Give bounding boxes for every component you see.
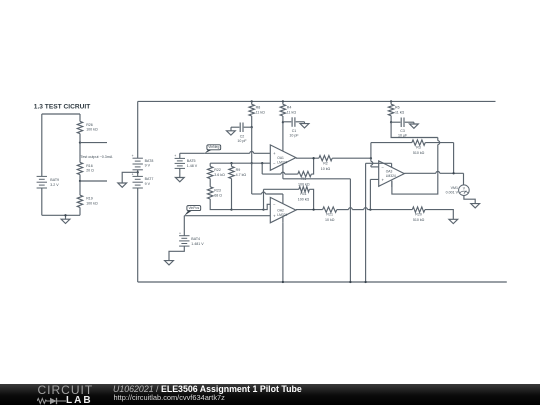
svg-text:R22: R22 — [214, 168, 221, 172]
wire R4 top lead — [282, 101, 284, 104]
pin OA3 vplus stub — [391, 163, 393, 167]
node test tap 2 — [79, 180, 81, 182]
capacitor C1 — [283, 121, 291, 123]
ground C3 — [410, 124, 419, 128]
node OA3 minus junction — [370, 157, 372, 159]
svg-text:OA3: OA3 — [386, 169, 393, 173]
svg-text:OA2: OA2 — [277, 208, 284, 212]
capacitor C3 — [391, 121, 400, 123]
svg-text:510 kΩ: 510 kΩ — [413, 151, 425, 155]
wire node2 to R19 — [79, 181, 81, 195]
svg-text:R8: R8 — [256, 106, 261, 110]
wire OA1 vminus to right — [283, 178, 351, 180]
svg-text:BAT5: BAT5 — [187, 159, 196, 163]
svg-text:Test output ~0.3mA: Test output ~0.3mA — [81, 155, 113, 159]
ground R20 — [449, 219, 458, 223]
node output R3 junction — [452, 172, 454, 174]
svg-text:9 V: 9 V — [145, 164, 151, 168]
svg-text:510 kΩ: 510 kΩ — [413, 218, 425, 222]
svg-text:BAT4: BAT4 — [191, 237, 200, 241]
wire R6 to C3 node — [390, 116, 392, 123]
svg-text:0.001 V: 0.001 V — [446, 191, 459, 195]
wire test-circuit left — [41, 114, 43, 176]
svg-text:VinPos: VinPos — [188, 206, 199, 210]
svg-text:+: + — [273, 213, 276, 218]
node R11 out junction — [312, 208, 314, 210]
svg-text:VinNeg: VinNeg — [208, 145, 219, 149]
battery BAT5 — [175, 157, 185, 159]
wire C1 to ground — [304, 122, 306, 124]
wire R8 to C2 node — [251, 116, 253, 127]
ground test circuit — [65, 215, 67, 219]
svg-text:C2: C2 — [240, 135, 245, 139]
svg-text:R9: R9 — [236, 168, 241, 172]
ground C1 — [300, 124, 309, 128]
resistor R3 feedback — [371, 142, 412, 144]
node R4 top — [282, 100, 284, 102]
svg-text:10 kΩ: 10 kΩ — [325, 218, 335, 222]
wire R9 bottom lead — [231, 179, 233, 210]
node R6 top — [390, 100, 392, 102]
resistor R20 — [412, 207, 425, 212]
capacitor C2 — [244, 126, 252, 128]
wire vplus down to rail — [365, 163, 367, 282]
svg-text:11 kΩ: 11 kΩ — [287, 111, 297, 115]
pin OA2 vminus stub — [282, 216, 284, 222]
battery BAT4 — [179, 235, 189, 237]
node C2 — [251, 126, 253, 128]
wire node1 to R16 — [79, 143, 81, 163]
resistor R22 — [208, 166, 213, 178]
svg-text:BAT8: BAT8 — [145, 159, 154, 163]
wire mid node to ground — [122, 172, 138, 183]
resistor R9 — [229, 166, 234, 178]
node test tap 1 — [79, 141, 81, 143]
svg-text:LM324: LM324 — [277, 161, 287, 165]
svg-text:1.48 V: 1.48 V — [187, 164, 198, 168]
wire top supply rail — [138, 100, 496, 102]
node R9 bottom — [230, 208, 232, 210]
wire R1 leg down — [261, 163, 263, 174]
wire R20 to ground — [425, 210, 453, 220]
svg-text:11 kΩ: 11 kΩ — [256, 111, 266, 115]
svg-text:+: + — [382, 177, 385, 182]
wire C3 node route right — [391, 122, 438, 137]
svg-text:VM1: VM1 — [451, 186, 458, 190]
svg-text:100 kΩ: 100 kΩ — [298, 197, 310, 201]
node R11 leg bottom — [262, 208, 264, 210]
svg-text:9 V: 9 V — [145, 182, 151, 186]
ground battery midpoint — [118, 183, 127, 187]
ground BAT4 — [165, 261, 174, 265]
resistor R19 — [77, 195, 82, 207]
wire output down to voltmeter — [463, 173, 465, 185]
logo doodle resistor-diode — [37, 398, 66, 403]
wire OA3 minus drop (hop over vplus line) — [370, 158, 372, 161]
wire R8C2 node down to minus line — [251, 127, 253, 163]
svg-text:+: + — [174, 154, 176, 158]
svg-text:−: − — [273, 161, 276, 166]
wire R23 bottom corner — [210, 199, 231, 210]
wire R22-R23 — [209, 179, 211, 187]
resistor R16 — [77, 162, 82, 174]
svg-text:+: + — [273, 151, 276, 156]
svg-text:R6: R6 — [395, 105, 400, 109]
node R1 takeoff — [261, 162, 263, 164]
svg-text:−: − — [382, 165, 385, 170]
battery BAT8 — [133, 157, 143, 159]
wire VinNeg to OA1 plus input (hop at R8 branch) — [205, 152, 250, 154]
svg-text:R19: R19 — [86, 197, 93, 201]
wire to OA2 vplus pin (hop over R11 leg) — [252, 193, 262, 195]
svg-text:LM324: LM324 — [386, 174, 396, 178]
svg-text:10 pF: 10 pF — [237, 139, 247, 143]
wire R8 branch down — [251, 163, 253, 194]
node vplus rail — [364, 281, 366, 283]
wire gain net top corner — [209, 163, 211, 166]
svg-text:68 Ω: 68 Ω — [214, 193, 222, 197]
wire BAT5 top — [180, 153, 205, 158]
resistor R4 — [280, 104, 285, 116]
wire R26 top lead — [79, 114, 81, 121]
wire test-circuit top — [42, 113, 80, 115]
svg-text:BAT7: BAT7 — [145, 177, 154, 181]
resistor R11 feedback — [263, 189, 265, 209]
wire R21 to R20 (hops) — [337, 209, 349, 211]
battery BAT7 — [133, 175, 143, 177]
op-amp OA2 — [270, 197, 296, 222]
svg-text:−: − — [273, 202, 276, 207]
svg-text:R16: R16 — [86, 164, 93, 168]
wire R6 top lead — [390, 101, 392, 104]
svg-text:10 pF: 10 pF — [289, 133, 299, 137]
svg-text:10 kΩ: 10 kΩ — [321, 167, 331, 171]
node OA2 vminus rail — [282, 281, 284, 283]
wire C2 to ground — [230, 127, 232, 131]
wire BAT8 to mid node — [137, 170, 139, 176]
svg-text:1.3 TEST CICRUIT: 1.3 TEST CICRUIT — [34, 104, 90, 111]
ground BAT5 — [175, 178, 184, 182]
svg-text:BAT9: BAT9 — [50, 178, 59, 182]
wire OA3 plus input — [370, 179, 378, 209]
battery BAT9 — [37, 175, 47, 177]
resistor R1 feedback — [262, 173, 281, 175]
resistor R21 — [323, 207, 337, 212]
svg-text:R23: R23 — [214, 188, 221, 192]
wire R8 top lead — [251, 101, 253, 104]
wire OA2 minus jog — [264, 204, 271, 209]
pin OA1 vminus stub — [282, 164, 284, 179]
svg-text:10 µF: 10 µF — [398, 133, 408, 137]
wire C1 node to OA1 vplus pin — [282, 122, 284, 151]
wire R3 right leg down — [453, 143, 455, 174]
wire R26 to node — [79, 134, 81, 143]
svg-text:+: + — [132, 172, 134, 176]
svg-text:R20: R20 — [415, 213, 422, 217]
op-amp OA3 — [379, 161, 405, 186]
wire R16 to node2 — [79, 175, 81, 181]
svg-text:R11: R11 — [300, 192, 306, 196]
wire R19 bottom lead — [79, 207, 81, 215]
node R8 branch on OA1 minus line — [251, 162, 253, 164]
pin OA3 vminus stub — [391, 181, 393, 187]
svg-text:+: + — [132, 154, 134, 158]
wire R9 top lead — [231, 163, 233, 166]
wire OA2 vminus to rail — [282, 223, 284, 282]
wire OA1 minus input line — [210, 162, 270, 164]
wire VM1 to ground — [464, 196, 475, 204]
wire test-circuit bottom — [42, 214, 80, 216]
flag VinNeg — [207, 145, 221, 150]
svg-text:C3: C3 — [400, 129, 405, 133]
svg-text:3.2 V: 3.2 V — [50, 183, 59, 187]
node vminus rail — [349, 281, 351, 283]
svg-text:R3: R3 — [416, 145, 421, 149]
resistor R26 — [77, 121, 82, 133]
node battery midpoint — [137, 171, 139, 173]
resistor R23 — [208, 187, 213, 199]
wire OA2 minus node line — [232, 209, 264, 211]
wire left rail lower — [137, 188, 139, 282]
svg-text:1.481 V: 1.481 V — [191, 242, 204, 246]
svg-text:R21: R21 — [326, 213, 333, 217]
node OA1 out junction — [312, 157, 314, 159]
wire OA1 output — [296, 157, 319, 159]
voltmeter VM1 — [459, 185, 470, 196]
wire C3 to ground — [413, 122, 415, 124]
svg-text:C1: C1 — [292, 129, 297, 133]
wire left rail upper — [137, 101, 139, 158]
wire R2 to OA3 node — [332, 157, 371, 159]
wire OA3 minus input — [371, 166, 379, 168]
flag VinPos — [187, 206, 201, 211]
svg-text:11 kΩ: 11 kΩ — [395, 110, 405, 114]
ground VM1 — [471, 204, 480, 208]
resistor R6 — [388, 104, 393, 116]
svg-text:100 kΩ: 100 kΩ — [86, 128, 98, 132]
wire bottom supply rail — [138, 281, 507, 283]
wire R3 leg up — [370, 143, 372, 159]
pin OA2 top power stub — [282, 194, 284, 204]
ground C2 — [227, 131, 236, 135]
op-amp OA1 — [270, 145, 296, 170]
wire OA3 output (hop at R6 route) — [404, 172, 436, 174]
node R9 top — [230, 162, 232, 164]
wire OA2 output — [296, 209, 323, 211]
wire VinPos to OA2 plus input — [184, 215, 270, 217]
svg-text:+: + — [179, 231, 181, 235]
svg-text:R26: R26 — [86, 123, 93, 127]
wire route down to OA3 vminus (hop over R3 line) — [437, 138, 439, 141]
svg-text:R2: R2 — [323, 161, 328, 165]
wire route bottom to OA3 pin — [392, 173, 438, 194]
node OA3 plus takeoff — [369, 208, 371, 210]
wire OA3 vplus to left — [366, 162, 392, 164]
wire BAT5 to ground — [179, 168, 181, 177]
wire test-circuit left lower — [41, 188, 43, 215]
wire vminus down to rail — [349, 179, 351, 282]
node C1 — [282, 121, 284, 123]
node C3 — [390, 121, 392, 123]
wire BAT4 to ground — [169, 246, 184, 261]
wire R4 to C1 node — [282, 116, 284, 122]
wire VinPos down to BAT4 — [183, 216, 185, 236]
resistor R2 — [319, 156, 332, 161]
resistor R8 — [249, 104, 254, 116]
svg-text:R4: R4 — [287, 106, 292, 110]
node R8 top — [251, 100, 253, 102]
svg-text:3.6 kΩ: 3.6 kΩ — [214, 173, 225, 177]
svg-text:4.7 kΩ: 4.7 kΩ — [236, 173, 247, 177]
svg-text:OA1: OA1 — [277, 156, 284, 160]
svg-text:20 Ω: 20 Ω — [86, 169, 94, 173]
svg-text:100 kΩ: 100 kΩ — [86, 202, 98, 206]
